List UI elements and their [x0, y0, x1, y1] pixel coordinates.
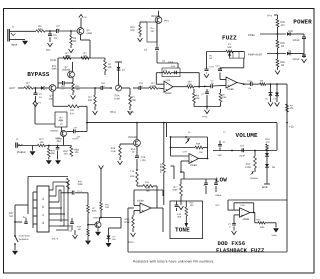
svg-text:R5B: R5B	[74, 149, 79, 152]
svg-text:10K: 10K	[130, 29, 135, 32]
svg-text:.1u: .1u	[56, 28, 60, 31]
svg-text:1M: 1M	[281, 45, 284, 48]
svg-text:-: -	[190, 156, 192, 160]
svg-text:LED?: LED?	[9, 87, 16, 90]
svg-text:R?2: R?2	[51, 150, 56, 153]
svg-text:1M: 1M	[9, 215, 12, 218]
svg-text:12K: 12K	[195, 97, 200, 100]
svg-text:100K: 100K	[150, 85, 156, 88]
svg-text:100K: 100K	[114, 97, 120, 100]
svg-text:TP1: TP1	[46, 49, 51, 52]
svg-text:10K: 10K	[26, 85, 31, 88]
svg-text:1M: 1M	[73, 40, 77, 43]
svg-text:10a: 10a	[145, 181, 150, 184]
svg-text:Input: Input	[11, 43, 17, 47]
svg-text:2N5088: 2N5088	[50, 129, 58, 132]
svg-text:VOLUME: VOLUME	[236, 132, 259, 139]
svg-text:100K: 100K	[172, 189, 178, 192]
svg-text:momentary: momentary	[19, 235, 31, 238]
svg-text:1M: 1M	[209, 57, 212, 60]
svg-text:100K: 100K	[51, 68, 57, 71]
svg-text:100: 100	[280, 24, 285, 27]
svg-text:.068uF: .068uF	[215, 194, 222, 197]
svg-text:10K: 10K	[39, 141, 44, 144]
svg-text:Output: Output	[17, 150, 26, 154]
svg-text:100K: 100K	[168, 61, 174, 64]
svg-text:FUZZ: FUZZ	[222, 34, 237, 41]
svg-text:footswitch: footswitch	[19, 238, 30, 241]
svg-text:R?2: R?2	[52, 65, 57, 68]
svg-text:BYPASS: BYPASS	[27, 71, 50, 78]
svg-text:100K: 100K	[171, 65, 176, 68]
svg-text:(PC): (PC)	[164, 20, 169, 23]
svg-text:(TP)9: (TP)9	[165, 79, 171, 82]
svg-text:R??: R??	[146, 187, 151, 190]
svg-text:PCB+: PCB+	[248, 33, 256, 37]
svg-text:-: -	[165, 83, 167, 87]
svg-text:R?L: R?L	[78, 181, 83, 184]
svg-text:R2A: R2A	[131, 148, 136, 151]
svg-text:220uF: 220uF	[293, 58, 301, 61]
svg-text:10K: 10K	[107, 66, 112, 69]
svg-text:4558B: 4558B	[190, 164, 197, 167]
svg-text:4558A: 4558A	[165, 92, 172, 95]
svg-text:C8A: C8A	[241, 204, 246, 207]
svg-text:T13: T13	[130, 170, 135, 173]
svg-text:Valve: Valve	[272, 234, 278, 237]
svg-text:+V: +V	[38, 102, 41, 105]
svg-text:100: 100	[70, 109, 75, 112]
svg-text:100K: 100K	[130, 99, 136, 102]
svg-text:TP10: TP10	[128, 241, 134, 244]
svg-text:100K: 100K	[91, 210, 97, 213]
svg-text:.7uF: .7uF	[57, 140, 62, 143]
svg-text:4558B: 4558B	[137, 200, 144, 203]
svg-text:10K: 10K	[199, 151, 203, 154]
svg-text:-: -	[241, 210, 243, 214]
svg-text:C4A: C4A	[177, 213, 182, 216]
svg-text:.047: .047	[61, 85, 66, 88]
svg-text:LED: LED	[112, 238, 117, 241]
svg-text:1381: 1381	[48, 97, 54, 100]
svg-text:100K: 100K	[124, 221, 130, 224]
svg-text:K??: K??	[70, 112, 75, 115]
svg-text:.7uF: .7uF	[76, 136, 81, 139]
svg-text:.01: .01	[53, 37, 57, 40]
svg-text:2N5088: 2N5088	[128, 136, 137, 139]
svg-text:470: 470	[266, 141, 271, 144]
svg-text:1N4148: 1N4148	[93, 217, 101, 220]
svg-text:PWR+8.4S: PWR+8.4S	[248, 53, 262, 57]
svg-text:4: 4	[42, 197, 44, 201]
svg-text:10K: 10K	[51, 152, 56, 155]
svg-text:4558B: 4558B	[243, 218, 250, 221]
svg-text:-: -	[227, 79, 229, 83]
svg-text:40L-4: 40L-4	[52, 238, 59, 241]
svg-text:50K: 50K	[227, 46, 232, 49]
svg-text:Resistors with letters have un: Resistors with letters have unknown R# n…	[133, 260, 215, 264]
svg-text:R30: R30	[63, 150, 68, 153]
svg-text:C?-L: C?-L	[78, 190, 84, 193]
svg-text:LED: LED	[288, 30, 293, 33]
svg-text:-: -	[141, 205, 143, 209]
svg-text:5088: 5088	[87, 32, 93, 35]
svg-text:TP4A: TP4A	[202, 116, 208, 119]
svg-text:220K: 220K	[221, 96, 227, 99]
svg-text:R16 10K: R16 10K	[159, 164, 162, 174]
svg-text:.01uF: .01uF	[239, 155, 245, 158]
svg-text:C1B: C1B	[248, 80, 253, 83]
svg-text:2N5088: 2N5088	[151, 15, 160, 18]
svg-text:1M: 1M	[281, 64, 284, 67]
svg-text:+12: +12	[289, 126, 294, 129]
svg-text:BtoB: BtoB	[262, 186, 268, 189]
svg-text:10K: 10K	[105, 206, 109, 209]
svg-text:1M: 1M	[77, 228, 80, 231]
svg-text:2N5088: 2N5088	[62, 69, 71, 72]
svg-text:TP10: TP10	[110, 111, 117, 114]
svg-text:10K: 10K	[88, 99, 93, 102]
svg-text:0: 0	[42, 205, 44, 209]
svg-text:100uF: 100uF	[293, 39, 301, 42]
svg-text:10K: 10K	[260, 79, 264, 82]
svg-text:V+o: V+o	[267, 13, 272, 17]
svg-text:.1uF: .1uF	[217, 154, 222, 157]
svg-text:.1u: .1u	[139, 85, 143, 88]
svg-text:POWER: POWER	[293, 19, 312, 26]
svg-text:C?A: C?A	[183, 150, 188, 153]
svg-text:R?A: R?A	[77, 226, 82, 229]
svg-text:100K: 100K	[260, 226, 266, 229]
svg-text:4558B: 4558B	[227, 88, 234, 91]
svg-text:3: 3	[42, 221, 44, 225]
svg-text:100K: 100K	[77, 183, 83, 186]
svg-text:100K: 100K	[245, 166, 251, 169]
svg-text:47K: 47K	[289, 107, 294, 110]
svg-text:DOD FX56: DOD FX56	[218, 240, 246, 247]
svg-text:(.05): (.05)	[141, 159, 146, 162]
svg-text:R13: R13	[130, 175, 135, 178]
svg-text:TONE: TONE	[175, 226, 190, 233]
svg-text:10K: 10K	[188, 83, 193, 86]
svg-text:TP11: TP11	[128, 111, 134, 114]
svg-text:1.5K: 1.5K	[111, 150, 116, 153]
svg-text:1: 1	[42, 213, 44, 217]
svg-text:PC2B: PC2B	[50, 59, 56, 62]
svg-text:R4B: R4B	[196, 143, 201, 146]
svg-text:FLASHBACK FUZZ: FLASHBACK FUZZ	[216, 247, 265, 254]
svg-text:C??: C??	[240, 145, 245, 148]
svg-text:Volume: Volume	[250, 177, 259, 180]
